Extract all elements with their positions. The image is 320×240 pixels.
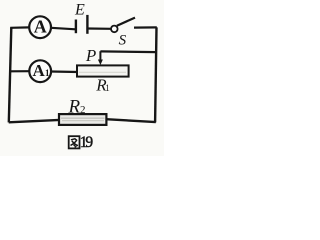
wire right rail xyxy=(155,27,156,122)
wire A1 to R1 xyxy=(51,70,77,73)
svg-text:E: E xyxy=(74,2,85,19)
wire top left xyxy=(10,26,29,29)
wire switch to right rail xyxy=(134,26,157,28)
svg-text:P: P xyxy=(85,46,96,65)
svg-text:A: A xyxy=(32,61,45,80)
battery E xyxy=(75,20,77,34)
svg-text:R: R xyxy=(68,96,81,117)
wire left rail xyxy=(9,28,12,123)
wire battery to switch xyxy=(88,27,112,29)
wire bottom right xyxy=(106,119,156,122)
switch S xyxy=(111,26,118,33)
ammeter A1 xyxy=(29,60,51,82)
ammeter A xyxy=(29,16,51,38)
rheostat R1 box xyxy=(77,65,129,76)
svg-text:S: S xyxy=(119,32,127,48)
svg-text:1: 1 xyxy=(45,68,50,78)
wire middle branch left xyxy=(10,70,29,72)
caption 图 glyph xyxy=(69,136,80,148)
wire wiper to right rail xyxy=(100,50,156,53)
wire A to battery xyxy=(51,28,76,30)
svg-text:A: A xyxy=(34,16,47,36)
wire bottom left xyxy=(9,120,60,122)
svg-text:1: 1 xyxy=(105,83,110,93)
wiper P arrow xyxy=(99,51,101,60)
resistor R2 box xyxy=(59,114,106,125)
svg-text:2: 2 xyxy=(80,104,86,116)
